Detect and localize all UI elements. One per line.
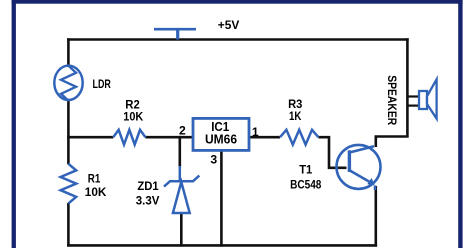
wire zener drop <box>179 136 182 167</box>
label T1 BC548 <box>290 162 322 191</box>
label ZD1 3.3V <box>136 179 160 207</box>
wire middle node to R2 <box>67 136 113 139</box>
wire bottom rail <box>67 244 377 247</box>
wire R1 to bottom rail <box>67 203 70 247</box>
svg-text:UM66: UM66 <box>205 133 237 147</box>
wire R3 to transistor base <box>318 137 346 168</box>
wire LDR to R1 <box>67 100 70 164</box>
IC U1 box IC1 UM66 <box>193 118 249 150</box>
svg-text:LDR: LDR <box>93 77 112 91</box>
svg-text:10K: 10K <box>123 110 143 124</box>
svg-text:3: 3 <box>210 153 217 167</box>
label SPEAKER (rotated) <box>385 75 399 125</box>
pin 3 label <box>210 153 217 167</box>
svg-text:+5V: +5V <box>218 18 240 32</box>
svg-text:1K: 1K <box>289 109 302 123</box>
wire IC1 pin3 to bottom rail <box>220 150 223 246</box>
svg-text:2: 2 <box>179 124 186 138</box>
wire R2 to IC1 pin2 <box>145 136 193 139</box>
resistor R3 <box>280 130 318 145</box>
border frame right <box>458 0 462 248</box>
border frame top <box>12 0 463 4</box>
svg-text:1: 1 <box>252 125 259 139</box>
wire speaker terminal stub bottom <box>408 104 420 106</box>
label LDR <box>93 77 112 91</box>
power +5V tap <box>154 29 196 39</box>
svg-text:3.3V: 3.3V <box>136 194 160 208</box>
svg-text:10K: 10K <box>85 185 107 199</box>
wire emitter to bottom rail <box>374 186 377 247</box>
speaker <box>419 79 437 118</box>
wire IC1 pin1 to R3 <box>249 136 280 139</box>
svg-text:T1: T1 <box>299 162 313 176</box>
resistor R2 <box>113 130 145 145</box>
label R1 10K <box>85 172 107 199</box>
wire right vertical (rail to speaker branch) <box>406 38 409 138</box>
svg-text:R1: R1 <box>88 172 101 186</box>
svg-text:BC548: BC548 <box>290 177 322 191</box>
wire top rail <box>67 38 409 41</box>
wire left vertical top (rail to LDR) <box>67 38 70 66</box>
border frame left <box>12 0 16 248</box>
zener diode ZD1 <box>164 166 199 213</box>
label +5V <box>218 18 240 32</box>
LDR <box>54 66 82 101</box>
svg-text:SPEAKER: SPEAKER <box>385 75 399 125</box>
wire collector up and right to speaker branch <box>376 137 406 148</box>
label R2 10K <box>123 97 143 123</box>
svg-text:ZD1: ZD1 <box>137 179 159 193</box>
pin 1 label <box>252 125 259 139</box>
label R3 1K <box>288 97 303 123</box>
wire zener anode to bottom rail <box>180 213 183 247</box>
resistor R1 <box>61 164 77 204</box>
wire speaker terminal stub top <box>408 95 420 97</box>
transistor Q1 T1 BC548 <box>337 145 381 190</box>
pin 2 label <box>179 124 186 138</box>
